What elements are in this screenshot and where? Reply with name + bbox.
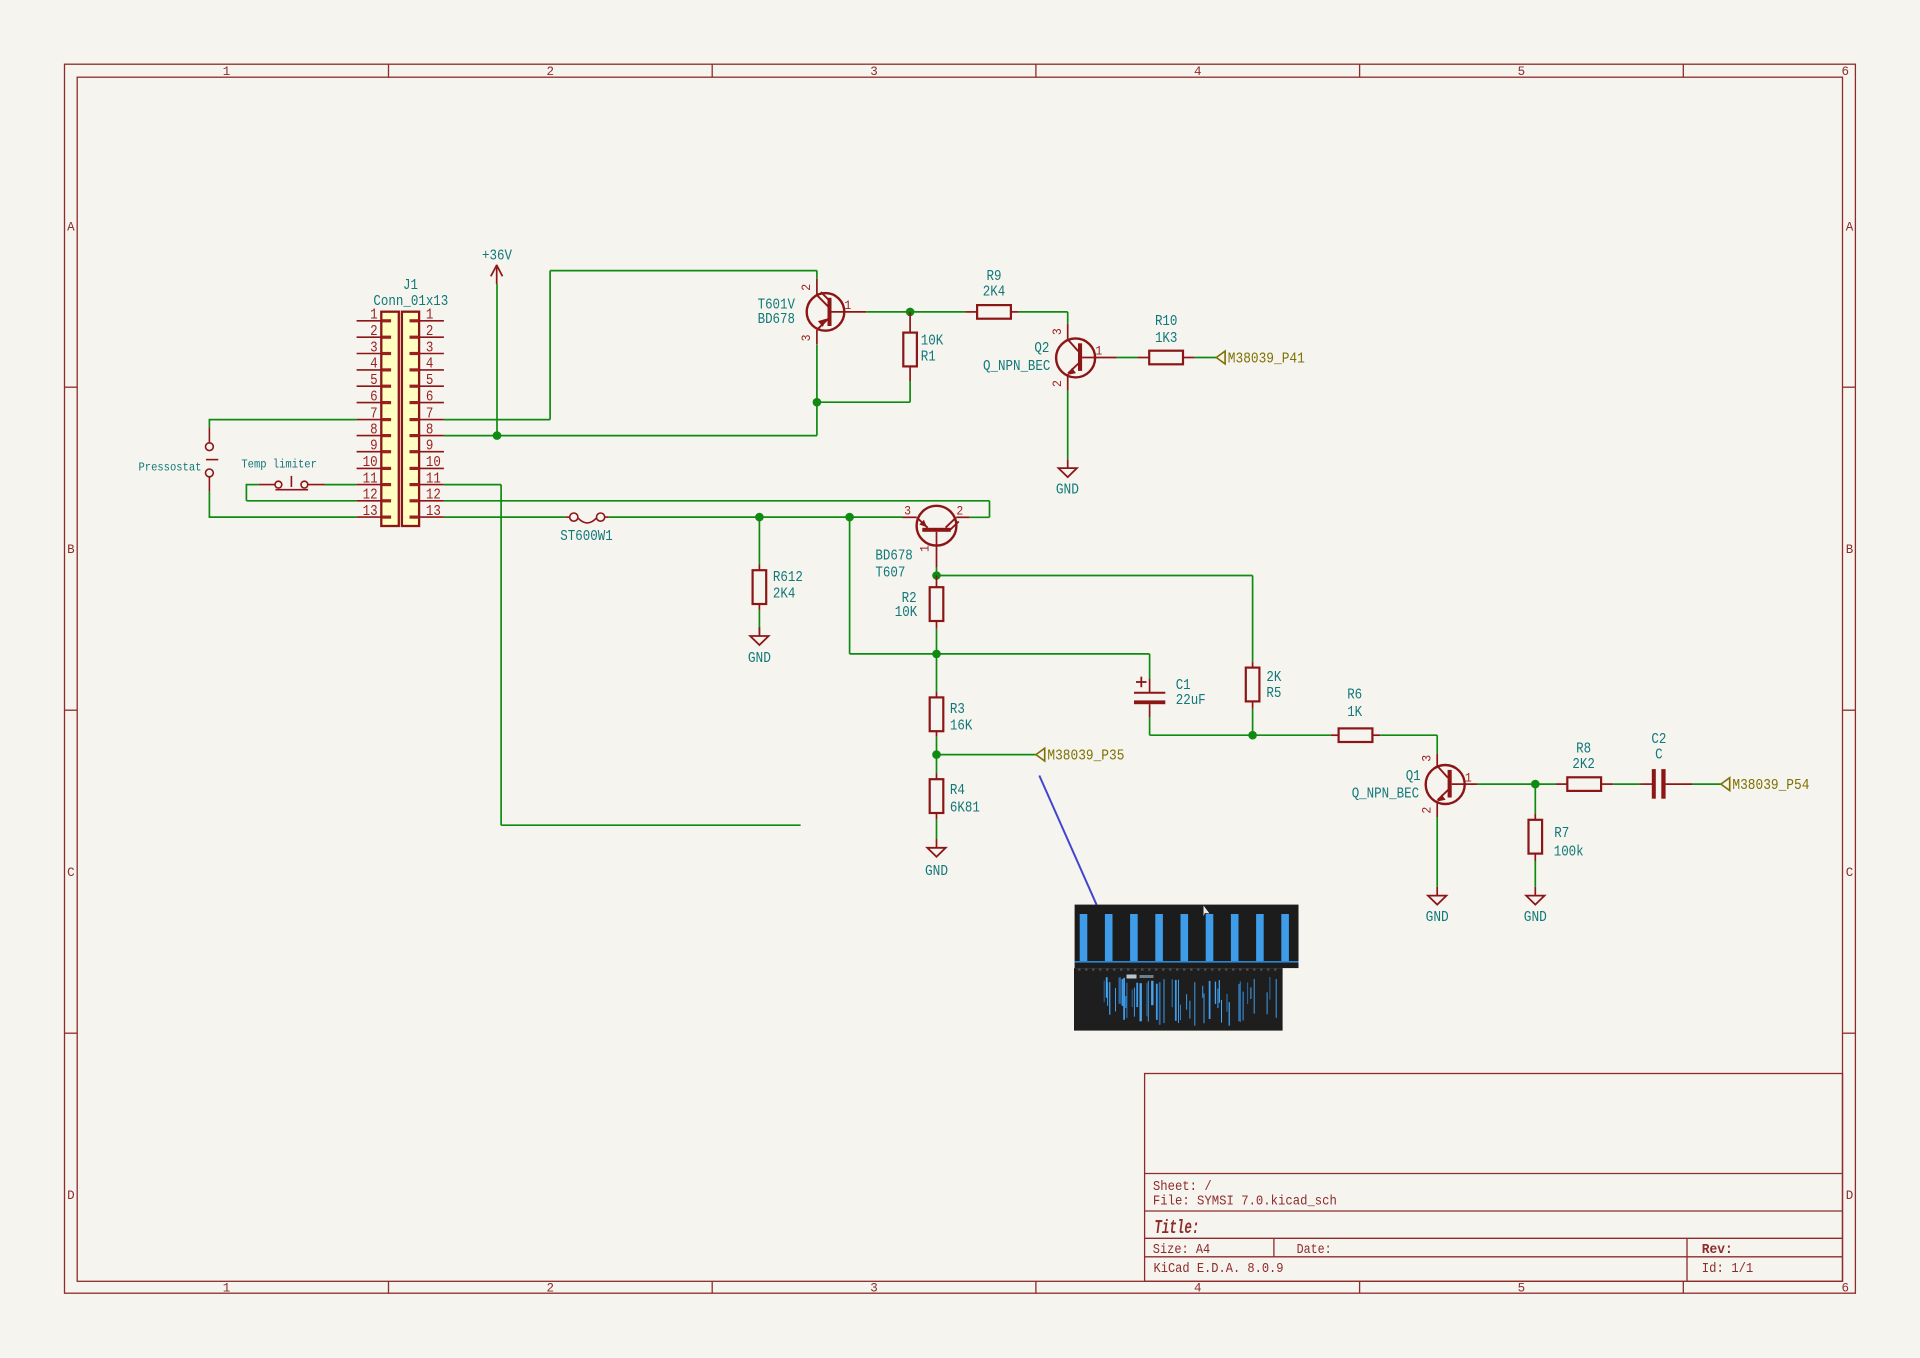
svg-text:2: 2	[426, 324, 434, 340]
wire pressostat to pin7	[209, 420, 357, 428]
svg-text:13: 13	[363, 504, 378, 520]
svg-text:1K3: 1K3	[1155, 331, 1178, 347]
svg-text:2: 2	[1420, 807, 1435, 814]
svg-text:D: D	[67, 1189, 75, 1203]
junction node R2 R3	[932, 650, 941, 659]
svg-text:8: 8	[426, 422, 434, 438]
wire C2 to label P54	[1693, 783, 1721, 785]
resistor R7 100k	[1529, 784, 1584, 861]
svg-text:R612: R612	[773, 570, 803, 586]
svg-text:GND: GND	[1056, 482, 1079, 498]
wire temp limiter to pin11	[325, 484, 357, 486]
switch Pressostat	[139, 427, 219, 491]
svg-text:11: 11	[426, 471, 441, 487]
wire fuse to T607	[609, 516, 903, 518]
wire pin13 to fuse	[444, 516, 566, 518]
svg-text:GND: GND	[1524, 910, 1547, 926]
wire temp limiter to pin12	[246, 484, 356, 501]
fuse ST600W1	[560, 513, 612, 545]
svg-text:ST600W1: ST600W1	[560, 529, 612, 545]
wire pin7 to T601V collector	[444, 271, 817, 420]
wire Q1 emitter to GND	[1436, 817, 1438, 887]
wire R4 to GND	[936, 819, 938, 839]
svg-text:M38039_P54: M38039_P54	[1732, 778, 1809, 794]
svg-text:1: 1	[1465, 770, 1472, 785]
svg-text:C2: C2	[1651, 732, 1666, 748]
svg-text:7: 7	[426, 406, 434, 422]
transistor T601V BD678	[758, 279, 867, 345]
ground GND under Q1	[1426, 887, 1449, 926]
junction R5 bottom rail	[1248, 731, 1257, 740]
svg-text:6: 6	[370, 389, 378, 405]
svg-text:Date:: Date:	[1297, 1243, 1332, 1258]
wire R6 to Q1 collector	[1380, 735, 1437, 754]
svg-text:R6: R6	[1347, 688, 1362, 704]
svg-text:3: 3	[1420, 755, 1435, 762]
svg-text:T607: T607	[875, 565, 905, 581]
resistor R6 1K	[1331, 688, 1380, 742]
transistor T607 BD678	[875, 503, 969, 581]
svg-text:3: 3	[426, 340, 434, 356]
svg-text:J1: J1	[403, 278, 418, 294]
svg-text:7: 7	[370, 406, 378, 422]
svg-text:10: 10	[363, 455, 378, 471]
connector J1 Conn_01x13	[357, 278, 449, 526]
junction R612 top	[755, 513, 764, 522]
svg-text:4: 4	[370, 357, 378, 373]
svg-text:File: SYMSI 7.0.kicad_sch: File: SYMSI 7.0.kicad_sch	[1153, 1195, 1337, 1210]
ground GND under R4	[925, 839, 948, 880]
svg-text:C: C	[1655, 748, 1663, 764]
wire T607 base node	[937, 568, 1253, 662]
wire +36V to pin8 rail	[496, 284, 498, 436]
svg-text:Size: A4: Size: A4	[1153, 1243, 1210, 1258]
svg-text:5: 5	[426, 373, 434, 389]
svg-text:2: 2	[547, 65, 555, 79]
resistor R5 2K	[1246, 662, 1282, 709]
svg-text:3: 3	[799, 334, 814, 341]
ground GND under Q2	[1056, 459, 1079, 498]
svg-text:3: 3	[870, 65, 878, 79]
svg-text:2: 2	[799, 284, 814, 291]
switch Temp limiter	[241, 457, 324, 489]
svg-text:6: 6	[1841, 1282, 1849, 1296]
svg-text:1: 1	[223, 65, 231, 79]
svg-text:4: 4	[1194, 1282, 1202, 1296]
svg-text:100k: 100k	[1554, 845, 1584, 861]
hierarchical label M38039_P54	[1721, 778, 1810, 794]
wire pin12 to T607 emitter	[444, 501, 990, 518]
svg-text:Q_NPN_BEC: Q_NPN_BEC	[1352, 786, 1420, 802]
svg-text:1: 1	[223, 1282, 231, 1296]
svg-text:D: D	[1846, 1189, 1854, 1203]
svg-text:1: 1	[917, 545, 932, 552]
svg-text:1: 1	[426, 308, 434, 324]
embedded logic-analyzer screenshot	[1074, 905, 1299, 1031]
svg-text:10: 10	[426, 455, 441, 471]
wire R8 to C2	[1613, 783, 1640, 785]
svg-text:2: 2	[1050, 380, 1065, 387]
svg-text:Temp limiter: Temp limiter	[241, 457, 317, 471]
svg-text:Title:: Title:	[1154, 1217, 1199, 1239]
svg-text:GND: GND	[925, 864, 948, 880]
junction Q1 base R7 R8	[1531, 780, 1540, 789]
svg-text:GND: GND	[1426, 910, 1449, 926]
wire R2 bottom to node	[936, 629, 938, 654]
capacitor C1 22uF	[1134, 677, 1206, 717]
svg-text:5: 5	[1518, 1282, 1526, 1296]
svg-text:KiCad E.D.A. 8.0.9: KiCad E.D.A. 8.0.9	[1154, 1262, 1284, 1277]
svg-text:2K: 2K	[1266, 670, 1281, 686]
wire Q2 base to R10	[1117, 357, 1138, 359]
svg-text:M38039_P41: M38039_P41	[1228, 351, 1305, 367]
svg-text:13: 13	[426, 504, 441, 520]
svg-text:2: 2	[956, 503, 963, 518]
svg-text:1: 1	[844, 298, 851, 313]
ground GND under R7	[1524, 887, 1547, 926]
svg-text:9: 9	[370, 439, 378, 455]
svg-text:Sheet: /: Sheet: /	[1153, 1180, 1212, 1195]
svg-text:T601V: T601V	[758, 298, 796, 314]
svg-text:GND: GND	[748, 651, 771, 667]
svg-text:3: 3	[870, 1282, 878, 1296]
title block	[1145, 1074, 1843, 1282]
hierarchical label M38039_P41	[1216, 351, 1305, 367]
svg-text:1: 1	[370, 308, 378, 324]
svg-text:A: A	[1846, 220, 1854, 234]
svg-text:3: 3	[1050, 328, 1065, 335]
svg-text:A: A	[67, 220, 75, 234]
svg-text:C1: C1	[1176, 678, 1191, 694]
wire R5 bottom	[1252, 709, 1254, 735]
resistor R4 6K81	[930, 755, 980, 820]
svg-text:5: 5	[1518, 65, 1526, 79]
svg-text:Q_NPN_BEC: Q_NPN_BEC	[983, 359, 1051, 375]
resistor R2 10K	[895, 576, 944, 629]
blue callout line to screenshot	[1039, 776, 1096, 905]
svg-text:1: 1	[1095, 344, 1102, 359]
wire R612 to GND	[758, 610, 760, 636]
svg-text:16K: 16K	[950, 718, 973, 734]
svg-text:R3: R3	[950, 702, 965, 718]
svg-text:Rev:: Rev:	[1702, 1243, 1733, 1258]
svg-text:11: 11	[363, 471, 378, 487]
resistor R10 1K3	[1138, 314, 1195, 364]
wire R9 to Q2 collector	[1019, 312, 1068, 324]
wire T601V base to R9	[866, 311, 965, 313]
svg-text:22uF: 22uF	[1176, 693, 1206, 709]
capacitor C2 C	[1641, 732, 1693, 798]
svg-text:+36V: +36V	[482, 249, 512, 265]
svg-text:BD678: BD678	[758, 312, 795, 328]
wire pressostat to pin13	[209, 492, 357, 517]
resistor R8 2K2	[1535, 742, 1613, 791]
svg-text:R9: R9	[987, 269, 1002, 285]
svg-text:R7: R7	[1554, 826, 1569, 842]
svg-text:5: 5	[370, 373, 378, 389]
svg-text:2K4: 2K4	[983, 285, 1006, 301]
ground GND under R612	[748, 627, 771, 667]
svg-text:R4: R4	[950, 783, 965, 799]
wire pin8 emitter rail	[444, 345, 817, 436]
svg-text:6: 6	[426, 389, 434, 405]
svg-text:Conn_01x13: Conn_01x13	[373, 294, 448, 310]
junction base R1 top	[906, 308, 915, 317]
wire Q2 emitter to GND	[1067, 390, 1069, 459]
svg-text:C: C	[1846, 866, 1854, 880]
svg-text:2K2: 2K2	[1572, 757, 1595, 773]
svg-text:12: 12	[426, 488, 441, 504]
junction R1 emitter rail	[813, 398, 822, 407]
svg-text:12: 12	[363, 488, 378, 504]
wire R7 to GND	[1534, 861, 1536, 887]
svg-text:3: 3	[904, 503, 911, 518]
svg-text:R8: R8	[1576, 742, 1591, 758]
hierarchical label M38039_P35	[1036, 748, 1125, 764]
svg-text:Q1: Q1	[1406, 769, 1421, 785]
wire R1 bottom link	[817, 381, 910, 402]
wire R10 to label P41	[1195, 357, 1217, 359]
svg-text:R10: R10	[1155, 314, 1178, 330]
svg-text:2: 2	[547, 1282, 555, 1296]
wire C1 to bottom rail	[1150, 717, 1331, 735]
svg-text:9: 9	[426, 439, 434, 455]
svg-text:B: B	[1846, 543, 1854, 557]
svg-text:6K81: 6K81	[950, 800, 980, 816]
svg-text:1K: 1K	[1347, 705, 1362, 721]
resistor R1 10K	[903, 312, 943, 381]
resistor R612 2K4	[753, 517, 803, 610]
svg-text:Id: 1/1: Id: 1/1	[1702, 1262, 1754, 1277]
svg-text:R1: R1	[921, 350, 936, 366]
transistor Q2 Q_NPN_BEC	[983, 324, 1117, 391]
resistor R3 16K	[930, 654, 973, 737]
svg-text:3: 3	[370, 340, 378, 356]
power symbol +36V	[482, 249, 512, 285]
svg-text:Pressostat: Pressostat	[139, 461, 202, 475]
wire riser to node rail	[850, 517, 1150, 654]
svg-text:BD678: BD678	[875, 548, 912, 564]
svg-text:6: 6	[1841, 65, 1849, 79]
junction pin8 +36V	[493, 431, 502, 440]
svg-text:C: C	[67, 866, 75, 880]
svg-text:8: 8	[370, 422, 378, 438]
svg-text:4: 4	[426, 357, 434, 373]
resistor R9 2K4	[965, 269, 1018, 319]
wire Q1 base to node	[1477, 783, 1535, 785]
svg-text:2K4: 2K4	[773, 587, 796, 603]
junction T607 base R2	[932, 571, 941, 580]
svg-text:10K: 10K	[921, 333, 944, 349]
svg-text:2: 2	[370, 324, 378, 340]
svg-text:Q2: Q2	[1034, 341, 1049, 357]
wire R3 to node P35	[937, 736, 1036, 754]
transistor Q1 Q_NPN_BEC	[1352, 754, 1477, 817]
junction riser x850	[845, 513, 854, 522]
svg-text:4: 4	[1194, 65, 1202, 79]
svg-text:M38039_P35: M38039_P35	[1047, 748, 1124, 764]
svg-text:R5: R5	[1266, 686, 1281, 702]
wire pin11 dangling riser	[444, 485, 801, 826]
svg-text:10K: 10K	[895, 605, 918, 621]
svg-text:B: B	[67, 543, 75, 557]
junction R3 R4 P35	[932, 750, 941, 759]
wire node to C1	[1149, 654, 1151, 678]
